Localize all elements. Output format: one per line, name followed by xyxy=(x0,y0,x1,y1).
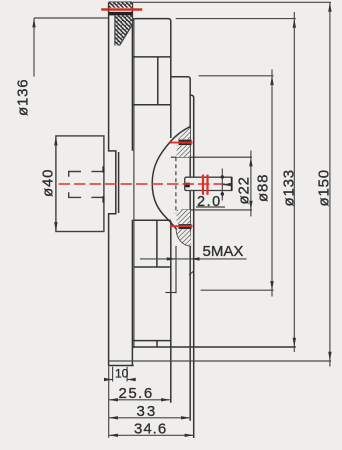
upper flange red bar xyxy=(170,142,193,144)
svg-text:25.6: 25.6 xyxy=(119,385,154,402)
dia136 dim line xyxy=(33,18,35,77)
10 ext left xyxy=(112,367,114,382)
v-groove wedge xyxy=(115,15,132,45)
lower flange black bar xyxy=(179,224,192,229)
body right face lower xyxy=(170,221,172,403)
2.0 arrow pointing left xyxy=(222,183,231,186)
hidden bore dashed line xyxy=(175,157,177,213)
boss pair line right xyxy=(193,139,195,177)
dia88 arrow up xyxy=(270,76,273,85)
spring bracket left xyxy=(69,172,81,198)
34.6 dim line xyxy=(109,434,194,436)
dia133 arrow down xyxy=(293,338,296,347)
body rounded top xyxy=(132,19,170,138)
dia88 dim line xyxy=(271,70,273,297)
web left inner line xyxy=(133,20,135,349)
5max arrow pointing left xyxy=(190,257,199,260)
boss pair line left xyxy=(189,95,191,177)
2.0 dim dots xyxy=(221,175,224,178)
dia22 bottom ext xyxy=(181,209,252,211)
svg-text:10: 10 xyxy=(115,367,129,381)
svg-text:33: 33 xyxy=(137,403,158,420)
rim top black band 2 xyxy=(109,12,132,16)
dia133 dim line xyxy=(293,12,295,352)
25.6 left ext (rim edge continues) xyxy=(108,366,110,438)
5max arrow pointing right xyxy=(167,257,176,260)
box1 top xyxy=(132,56,170,58)
flange bottom edge + dia22 top ext xyxy=(171,156,252,158)
33 arrow left xyxy=(109,416,118,419)
2.0 leader xyxy=(222,184,230,186)
10 dim tails xyxy=(104,379,112,381)
dia150 arrow up xyxy=(328,3,331,12)
svg-text:ø150: ø150 xyxy=(316,169,333,206)
rim left edge with step xyxy=(109,2,116,365)
rim bottom edge xyxy=(109,365,134,367)
spring tick top right xyxy=(91,171,104,173)
svg-text:ø40: ø40 xyxy=(40,169,57,197)
dia40 arrow up xyxy=(54,136,57,145)
dia88 top ext xyxy=(199,75,274,77)
5max dim line xyxy=(140,258,247,260)
box2 divider xyxy=(156,220,158,267)
2.0 dim vertical xyxy=(221,169,223,201)
dia150 bottom ext xyxy=(109,360,331,362)
left cylinder xyxy=(56,136,104,232)
shaft end cap xyxy=(231,177,233,191)
wedge lower boundary xyxy=(120,25,133,46)
25.6 dim line xyxy=(109,399,171,401)
lower flange red bar xyxy=(170,225,193,227)
box1 divider xyxy=(157,57,159,105)
spring tick bottom right xyxy=(91,196,104,198)
small slash between pair lines xyxy=(189,271,194,275)
svg-text:2.0: 2.0 xyxy=(197,194,222,210)
dia40 arrow down xyxy=(54,222,57,231)
dia150 dim line xyxy=(329,2,331,366)
step inner line xyxy=(118,152,120,213)
box3 top xyxy=(132,340,170,342)
dia22 arrow up xyxy=(249,157,252,166)
bell curve xyxy=(152,126,191,229)
red groove line 2 xyxy=(206,175,208,195)
box2 bottom xyxy=(134,266,171,268)
shaft xyxy=(185,177,232,191)
svg-text:ø136: ø136 xyxy=(15,79,32,116)
rim top red line xyxy=(101,8,142,10)
rim right edge lower xyxy=(131,220,133,366)
25.6 arrow left xyxy=(109,398,118,401)
svg-text:ø22: ø22 xyxy=(236,176,253,204)
lower flare arc xyxy=(176,229,191,246)
box3 bottom + dia133 lower extension xyxy=(132,346,295,348)
dia150 top ext xyxy=(133,1,331,3)
svg-text:5MAX: 5MAX xyxy=(203,243,244,260)
10 arrow pointing left xyxy=(127,378,136,381)
rim top edge xyxy=(109,1,133,3)
boss pair line left lower xyxy=(189,191,191,421)
dia88 bottom ext xyxy=(201,289,274,291)
dia136 arrow up xyxy=(32,18,35,27)
box3 divider xyxy=(156,341,158,347)
lower flange hatch C xyxy=(177,210,191,224)
wedge left boundary xyxy=(114,15,116,45)
lower flare hatch D xyxy=(176,229,191,246)
red groove line 1 xyxy=(202,175,204,195)
boss pair line right lower xyxy=(193,191,195,439)
svg-text:ø88: ø88 xyxy=(255,174,272,202)
spring blob bottom xyxy=(102,196,104,202)
5max left ext xyxy=(175,246,177,293)
rim right edge upper xyxy=(131,2,133,151)
25.6 arrow right xyxy=(161,398,170,401)
shaft center dark blob xyxy=(185,183,190,188)
upper flange hatch B xyxy=(177,145,191,157)
34.6 arrow left xyxy=(109,434,118,437)
dia133 arrow up xyxy=(293,19,296,28)
svg-text:ø133: ø133 xyxy=(281,169,298,206)
upper flange black bar xyxy=(179,140,192,146)
33 arrow right xyxy=(181,416,190,419)
box2 top xyxy=(134,219,171,221)
dia133 top ext xyxy=(176,18,296,20)
svg-text:34.6: 34.6 xyxy=(134,421,167,438)
box1 bottom xyxy=(132,104,170,106)
33 dim line xyxy=(109,417,191,419)
spring blob top xyxy=(102,166,104,172)
red center line xyxy=(59,183,232,185)
dia88 arrow down xyxy=(270,281,273,290)
dia136 ext xyxy=(34,17,109,19)
rim top black band 1 xyxy=(109,2,132,7)
dia150 arrow down xyxy=(328,352,331,361)
small step near 292 xyxy=(166,292,176,294)
upper flange hatch A xyxy=(175,128,191,140)
dia22 dim line xyxy=(250,151,252,217)
boss step top xyxy=(171,77,194,139)
10 arrow pointing right xyxy=(104,378,113,381)
2.0 underline xyxy=(196,206,225,208)
34.6 arrow right xyxy=(185,434,194,437)
10 ext right xyxy=(126,367,128,382)
dia22 arrow down xyxy=(249,201,252,210)
